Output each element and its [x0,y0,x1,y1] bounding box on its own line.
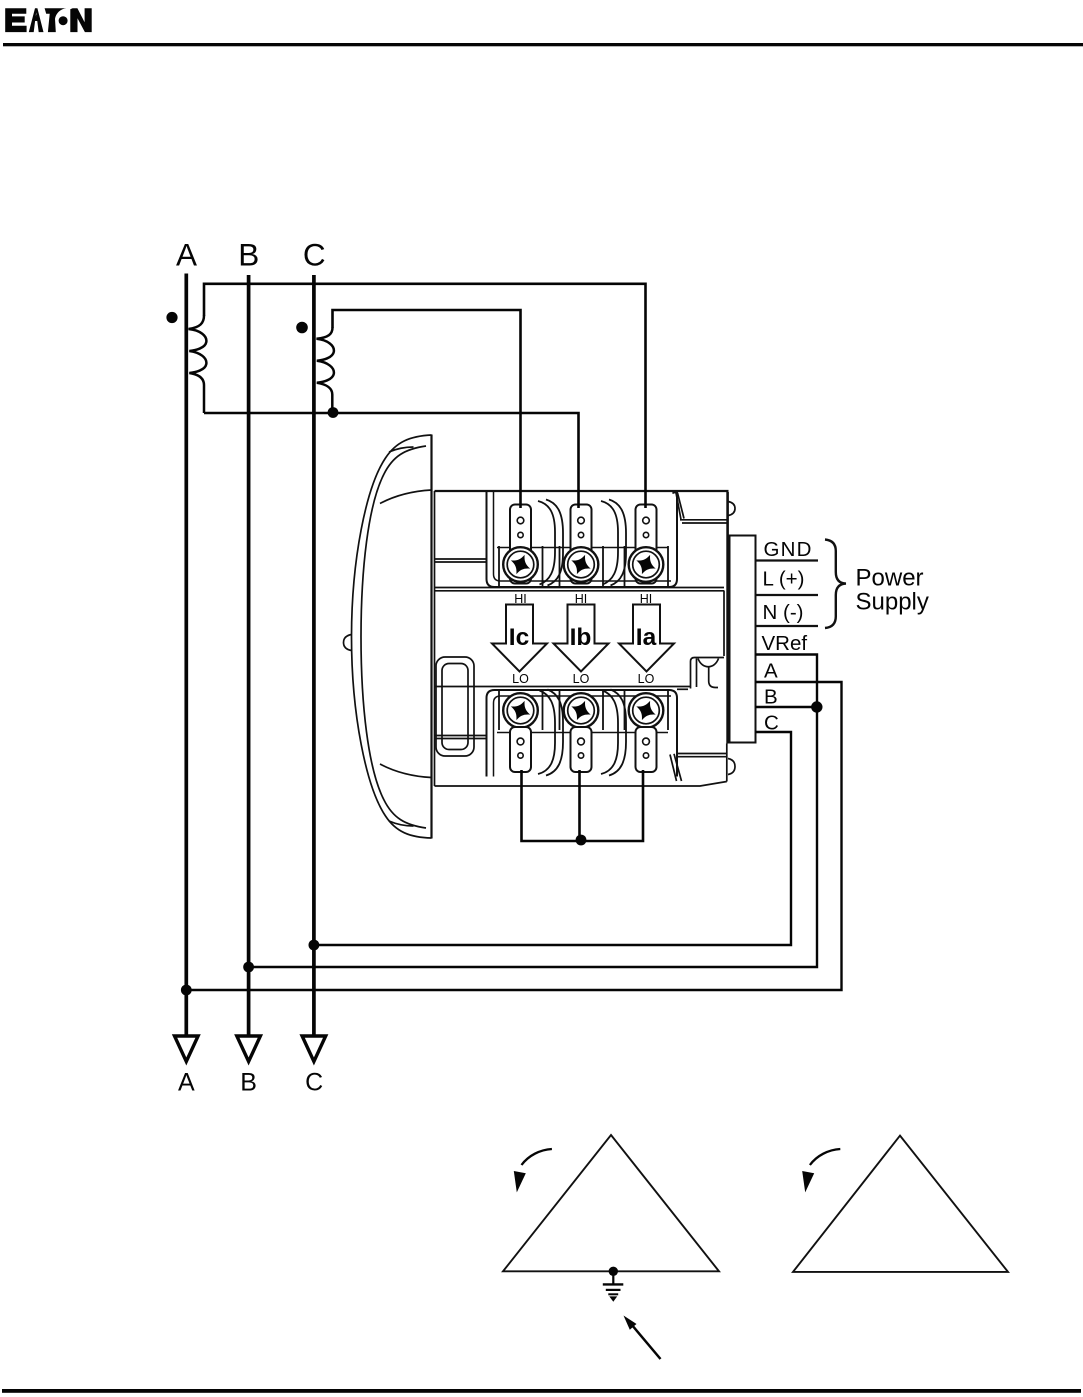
ground node dot [609,1267,618,1276]
wire CT-A to meter Ia HI [204,284,646,508]
label Power Supply [856,565,929,616]
rotation arrow triangle 2 [802,1149,840,1192]
CT-A polarity dot [166,312,177,323]
bottom terminal straps and screws [499,690,668,772]
terminal screw Ic HI [503,547,538,582]
terminal strap Ia LO [636,727,657,772]
terminal stub GND [756,559,819,561]
terminal strap Ic LO [510,727,531,772]
svg-text:VRef: VRef [762,632,808,655]
phase line C [312,275,316,1036]
bottom barrier 1 [538,690,563,776]
phase line B [247,275,251,1036]
wire VRef to node B [756,655,818,707]
bottom barrier 2 [601,690,626,776]
ground pointer arrow [624,1316,661,1360]
wire common bus to meter Ib HI [204,413,579,508]
terminal screw Ib LO [560,690,604,730]
top rule [3,43,1083,46]
EATON logo [5,8,92,32]
svg-text:Ia: Ia [636,624,657,651]
svg-text:HI: HI [575,592,588,606]
top terminal straps and screws [499,505,668,587]
meter bottom-left bracket [436,657,474,756]
svg-text:C: C [303,237,326,273]
arrowhead phase A [175,1036,199,1062]
junction dot current common [576,835,587,846]
CT-C winding [317,328,334,413]
terminal stub L(+) [756,594,819,596]
bottom rule [2,1389,1081,1393]
junction dot phase B tap [243,962,254,973]
top barrier 2 [601,500,626,586]
svg-text:L (+): L (+) [763,568,805,591]
svg-text:LO: LO [512,672,529,686]
wire terminal C to phase C [314,732,791,945]
svg-text:Power: Power [856,565,924,592]
svg-text:Supply: Supply [856,589,929,616]
junction dot CT-C common [328,407,339,418]
junction dot phase C tap [309,940,320,951]
connector block (power/vref/abc) [730,536,756,743]
top barrier 1 [538,500,563,586]
meter bottom terminal block [487,690,678,777]
terminal screw Ic LO [499,690,543,730]
CT-A winding [189,316,207,414]
terminal strap Ic HI [499,505,543,587]
svg-text:N (-): N (-) [763,601,804,624]
terminal strap Ib LO [571,727,592,772]
arrowhead phase C [302,1036,326,1062]
svg-text:LO: LO [573,672,590,686]
terminal screw Ia LO [625,690,669,730]
svg-text:C: C [305,1069,323,1097]
power supply brace [825,540,846,629]
meter top terminal block [487,491,678,587]
svg-text:HI: HI [640,592,653,606]
meter dome lens [344,435,432,839]
current arrow Ic [492,605,547,672]
svg-text:Ic: Ic [509,624,529,651]
meter right mid step bracket [677,658,724,690]
wire meter Ic LO down [522,770,644,841]
svg-text:B: B [764,686,778,709]
terminal screw Ib HI [564,547,599,582]
arrowhead phase B [237,1036,261,1062]
delta triangle 2 [793,1136,1008,1272]
terminal stub N(-) [756,625,819,627]
meter body outline [435,491,729,786]
svg-text:HI: HI [514,592,527,606]
svg-text:A: A [178,1069,195,1097]
rotation arrow triangle 1 [514,1149,552,1192]
wire terminal B to phase B [249,707,817,967]
junction dot VRef-B [811,701,822,712]
terminal screw Ia HI [629,547,664,582]
svg-text:B: B [240,1069,257,1097]
delta triangle 1 [503,1135,719,1271]
svg-text:B: B [238,237,259,273]
wire meter Ib LO down [578,770,581,841]
current arrow Ia [619,605,674,672]
svg-text:A: A [176,237,197,273]
terminal strap Ib HI [560,505,604,587]
svg-text:GND: GND [764,538,813,561]
phase line A [184,274,188,1037]
svg-text:C: C [764,712,779,735]
svg-text:Ib: Ib [570,624,592,651]
CT-C polarity dot [296,322,308,334]
terminal strap Ia HI [625,505,669,587]
junction dot phase A tap [181,985,192,996]
current arrow Ib [554,605,609,672]
svg-text:LO: LO [638,672,655,686]
wire CT-C to meter Ic HI [333,310,521,508]
meter top-right flange [673,493,736,523]
wire terminal A to phase A [186,682,841,990]
meter drawing group [344,435,736,839]
ground symbol [603,1271,624,1302]
svg-text:A: A [764,660,778,683]
meter bottom-right flange [670,754,735,782]
